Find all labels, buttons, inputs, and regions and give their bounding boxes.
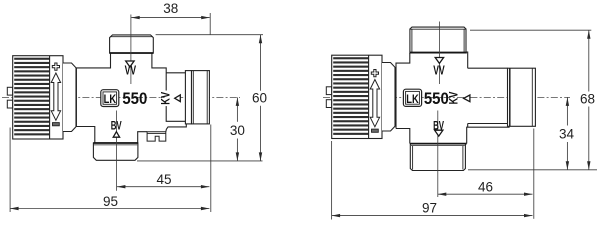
left valve outlet nut (192, 71, 210, 124)
right valve 550 text (424, 90, 449, 108)
right valve BV label (433, 120, 444, 133)
svg-text:VV: VV (125, 64, 137, 78)
dimension 97 left extension line (331, 141, 333, 220)
dimension 45 (117, 172, 209, 188)
left valve body (76, 53, 186, 143)
right valve BV flow triangle (435, 130, 443, 136)
svg-text:60: 60 (252, 91, 267, 106)
dimension 95 left extension line (9, 128, 11, 213)
left valve: horizontal centerline (2, 96, 240, 98)
svg-text:30: 30 (230, 123, 245, 138)
knob body (13, 56, 63, 139)
left valve KV flow triangle (175, 95, 181, 102)
svg-text:LK: LK (406, 93, 419, 106)
left valve LK logo (101, 90, 119, 107)
right valve VV flow triangle (435, 58, 443, 64)
left valve BV port centerline (116, 111, 118, 191)
svg-text:KV: KV (161, 92, 173, 105)
left valve bottom cap (BV port) (93, 143, 137, 160)
right valve VV label (433, 64, 445, 78)
svg-text:550: 550 (122, 90, 147, 108)
left valve KV label (rotated) (161, 91, 175, 107)
right valve BV port centerline (437, 111, 439, 198)
right valve bottom port (threaded) (410, 144, 466, 171)
right valve outlet thread block (508, 68, 536, 126)
dimension 60 top extension line (156, 34, 263, 36)
right valve: horizontal centerline (323, 96, 570, 98)
knob minus symbol (372, 129, 379, 132)
svg-text:550: 550 (424, 90, 449, 108)
dimension 46 (438, 179, 533, 196)
svg-text:LK: LK (104, 93, 117, 106)
left valve VV flow triangle (126, 61, 134, 67)
knob double arrow (370, 80, 379, 127)
left valve 550 text (122, 90, 147, 108)
svg-text:45: 45 (156, 172, 171, 187)
svg-text:97: 97 (422, 201, 437, 216)
dimension 95 (10, 194, 209, 210)
bottom reference extension line (68/34) (468, 169, 597, 171)
svg-text:46: 46 (478, 179, 493, 194)
left valve BV flow triangle (113, 132, 119, 138)
knob tabs (7, 87, 12, 108)
knob collar (63, 63, 76, 132)
right valve KV label (rotated) (449, 92, 461, 105)
right valve KV flow triangle (464, 95, 470, 102)
dimension 60 (252, 35, 267, 161)
knob double arrow (51, 73, 60, 120)
svg-text:68: 68 (580, 92, 595, 107)
dimension 68 top extension line (470, 29, 591, 31)
svg-text:34: 34 (559, 126, 575, 141)
svg-text:KV: KV (449, 92, 461, 105)
left valve body lower-right clip detail (147, 132, 166, 141)
right valve body (396, 52, 510, 144)
dimension 97 (332, 201, 533, 218)
left valve VV port centerline (130, 15, 132, 85)
knob plus symbol (52, 63, 59, 70)
knob collar (382, 63, 395, 132)
knob plus symbol (371, 70, 378, 77)
svg-text:95: 95 (103, 194, 118, 209)
bottom reference extension line (60/30) (137, 160, 263, 162)
dimension 34 (559, 97, 575, 169)
svg-text:38: 38 (163, 1, 178, 16)
dimension 30 (230, 97, 245, 160)
dimension 45/95 right extension line (210, 125, 212, 213)
dimension 68 (580, 30, 595, 170)
dimension 38 extension line right (209, 13, 211, 35)
right valve VV port centerline (438, 22, 440, 85)
svg-text:VV: VV (433, 64, 445, 78)
left valve outlet ring (185, 71, 191, 124)
knob minus symbol (53, 123, 60, 126)
right valve top port (threaded) (410, 27, 467, 53)
dimension 46/97 right extension line (533, 129, 535, 219)
knob body (332, 55, 382, 138)
left valve VV label (125, 64, 137, 78)
knob tabs (326, 87, 331, 108)
left valve BV label (111, 120, 122, 133)
dimension 38 (131, 1, 210, 19)
right valve LK logo (403, 89, 421, 106)
left valve top cap (VV port) (110, 35, 154, 53)
